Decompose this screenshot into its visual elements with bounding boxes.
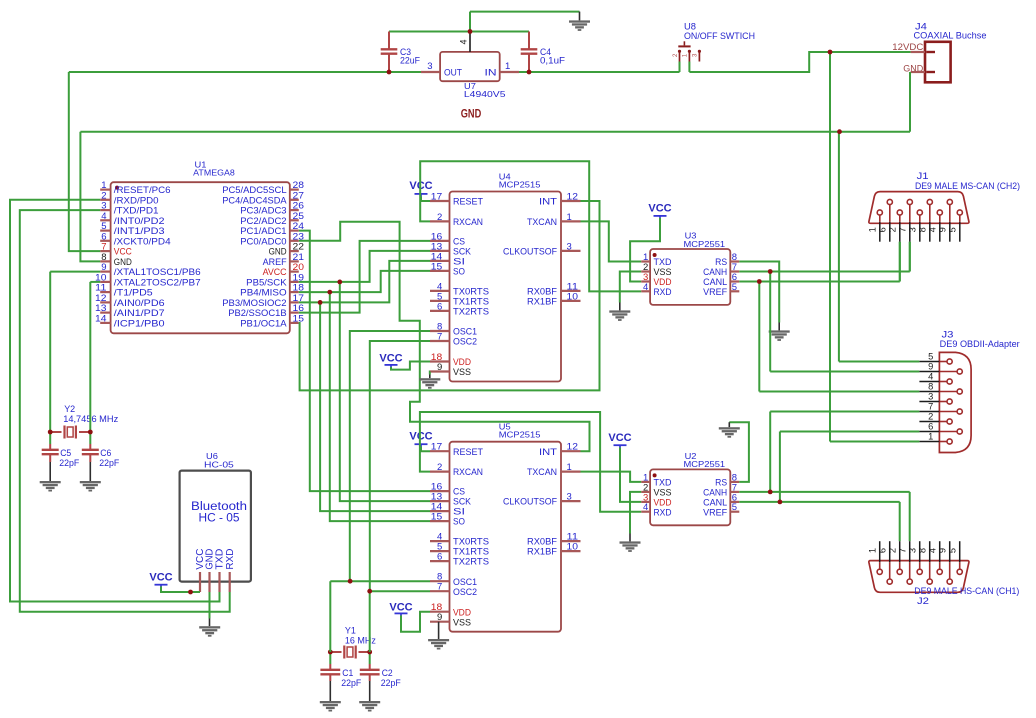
svg-text:9: 9 [938,227,948,232]
svg-text:C1: C1 [342,668,353,678]
svg-text:8: 8 [918,227,928,232]
svg-text:3: 3 [908,227,918,232]
svg-text:1: 1 [928,431,933,441]
svg-text:RESET: RESET [453,197,483,208]
svg-text:15: 15 [431,261,443,272]
svg-text:0,1uF: 0,1uF [540,55,565,65]
svg-text:1: 1 [567,462,572,473]
svg-text:6: 6 [878,548,888,553]
svg-text:CLKOUTSOF: CLKOUTSOF [503,497,557,508]
svg-text:8: 8 [918,548,928,553]
svg-text:MCP2515: MCP2515 [499,180,541,190]
svg-text:2: 2 [437,212,442,223]
svg-text:C5: C5 [60,448,71,458]
svg-text:3: 3 [908,548,918,553]
svg-text:IN: IN [485,67,497,78]
svg-text:5: 5 [928,351,933,361]
svg-text:VCC: VCC [409,430,432,442]
svg-text:PB1/OC1A: PB1/OC1A [240,319,287,330]
svg-text:INT: INT [539,197,557,208]
svg-text:10: 10 [567,291,579,302]
svg-text:1: 1 [868,227,878,232]
svg-text:14: 14 [95,313,107,324]
svg-text:12VDC: 12VDC [892,42,924,52]
svg-text:3: 3 [567,241,572,252]
svg-text:17: 17 [431,192,443,203]
svg-text:5: 5 [732,502,737,513]
svg-text:VCC: VCC [149,572,172,584]
svg-text:15: 15 [293,313,305,324]
svg-text:2: 2 [437,462,442,473]
svg-text:Y2: Y2 [64,404,75,414]
svg-text:VSS: VSS [453,617,471,628]
svg-text:8: 8 [928,381,933,391]
svg-text:1: 1 [505,61,510,72]
svg-text:RXD: RXD [654,287,672,298]
svg-text:RX1BF: RX1BF [527,297,557,308]
svg-text:12: 12 [567,192,579,203]
svg-text:9: 9 [437,612,442,623]
svg-text:3: 3 [928,391,933,401]
svg-text:TX2RTS: TX2RTS [453,557,489,568]
svg-text:3: 3 [567,492,572,503]
svg-text:6: 6 [878,227,888,232]
svg-text:C6: C6 [100,448,111,458]
svg-text:4: 4 [643,282,648,293]
svg-text:10: 10 [567,542,579,553]
svg-text:VCC: VCC [648,203,671,215]
svg-text:9: 9 [437,362,442,373]
svg-text:COAXIAL Buchse: COAXIAL Buchse [914,31,987,41]
svg-text:HC-05: HC-05 [204,460,234,470]
svg-text:MCP2515: MCP2515 [499,430,541,440]
svg-text:22pF: 22pF [59,458,79,468]
svg-text:TXCAN: TXCAN [527,217,557,228]
svg-text:RXCAN: RXCAN [453,467,483,478]
svg-text:VREF: VREF [703,507,727,518]
svg-text:TXCAN: TXCAN [527,467,557,478]
svg-text:SO: SO [453,267,465,278]
svg-text:CLKOUTSOF: CLKOUTSOF [503,247,557,258]
svg-text:4: 4 [928,371,933,381]
svg-text:SO: SO [453,517,465,528]
svg-text:ON/OFF SWTICH: ON/OFF SWTICH [684,31,755,41]
svg-text:INT: INT [539,447,557,458]
svg-text:7: 7 [898,548,908,553]
svg-text:HC - 05: HC - 05 [199,513,240,525]
svg-text:VSS: VSS [453,367,471,378]
svg-text:RESET: RESET [453,447,483,458]
svg-text:6: 6 [928,421,933,431]
svg-text:MCP2551: MCP2551 [684,239,726,249]
svg-text:2: 2 [888,227,898,232]
svg-text:9: 9 [928,361,933,371]
svg-text:OSC2: OSC2 [453,337,477,348]
svg-text:4: 4 [459,39,469,44]
svg-text:RXCAN: RXCAN [453,217,483,228]
svg-text:U8: U8 [684,22,696,32]
svg-text:3: 3 [427,61,432,72]
svg-text:VCC: VCC [379,352,402,364]
svg-text:TX2RTS: TX2RTS [453,307,489,318]
svg-text:VREF: VREF [703,287,727,298]
svg-text:22uF: 22uF [400,55,420,65]
svg-text:Y1: Y1 [345,626,356,636]
svg-text:OUT: OUT [444,67,462,78]
svg-text:15: 15 [431,512,443,523]
svg-text:4: 4 [928,548,938,553]
svg-text:1: 1 [868,548,878,553]
svg-text:Bluetooth: Bluetooth [191,501,247,513]
svg-text:1: 1 [567,212,572,223]
svg-text:7: 7 [437,582,442,593]
svg-text:C2: C2 [382,668,393,678]
svg-text:J2: J2 [917,596,929,606]
svg-text:4: 4 [643,502,648,513]
svg-text:7: 7 [928,401,933,411]
svg-text:9: 9 [938,548,948,553]
svg-text:OSC2: OSC2 [453,587,477,598]
svg-text:ATMEGA8: ATMEGA8 [193,168,235,178]
svg-text:22pF: 22pF [381,678,401,688]
svg-text:16 MHz: 16 MHz [345,636,376,646]
svg-text:5: 5 [732,282,737,293]
svg-text:22pF: 22pF [341,678,361,688]
svg-text:7: 7 [898,227,908,232]
svg-text:4: 4 [928,227,938,232]
svg-text:22pF: 22pF [99,458,119,468]
svg-text:RXD: RXD [225,549,236,570]
svg-text:VCC: VCC [389,601,412,613]
svg-text:J3: J3 [942,330,954,340]
svg-text:12: 12 [567,442,579,453]
svg-text:7: 7 [437,332,442,343]
svg-text:/ICP1/PB0: /ICP1/PB0 [114,319,165,330]
svg-text:2: 2 [928,411,933,421]
svg-text:DE9 OBDII-Adapter: DE9 OBDII-Adapter [940,339,1020,349]
svg-text:6: 6 [437,552,442,563]
svg-text:VCC: VCC [608,432,631,444]
svg-text:6: 6 [437,301,442,312]
svg-text:5: 5 [948,548,958,553]
svg-text:GND: GND [461,108,482,120]
svg-text:J1: J1 [917,171,929,181]
svg-text:MCP2551: MCP2551 [684,459,726,469]
svg-text:5: 5 [948,227,958,232]
svg-text:DE9 MALE HS-CAN (CH1): DE9 MALE HS-CAN (CH1) [914,586,1019,596]
svg-text:RXD: RXD [654,507,672,518]
svg-text:2: 2 [888,548,898,553]
svg-text:RX1BF: RX1BF [527,547,557,558]
svg-text:L4940V5: L4940V5 [464,89,506,99]
svg-text:17: 17 [431,442,443,453]
svg-text:DE9 MALE MS-CAN (CH2): DE9 MALE MS-CAN (CH2) [915,181,1020,191]
